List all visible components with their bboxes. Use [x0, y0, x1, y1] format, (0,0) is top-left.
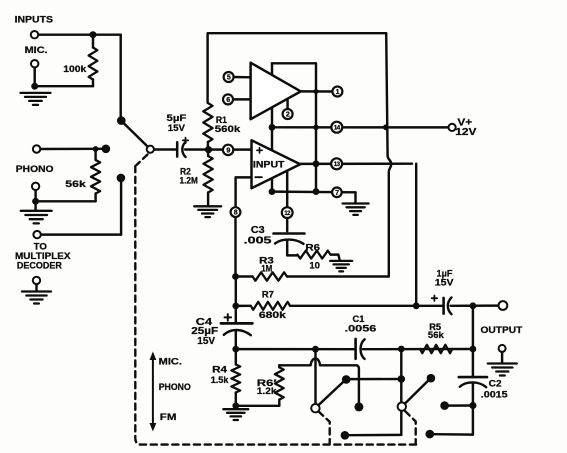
svg-text:15V: 15V	[168, 122, 186, 133]
svg-text:DECODER: DECODER	[17, 260, 62, 271]
svg-text:MIC.: MIC.	[25, 44, 48, 55]
svg-text:8: 8	[234, 209, 238, 217]
svg-text:PHONO: PHONO	[159, 382, 192, 393]
svg-text:100k: 100k	[63, 63, 87, 74]
svg-text:INPUTS: INPUTS	[15, 15, 53, 25]
svg-text:15V: 15V	[435, 276, 455, 287]
svg-text:OUTPUT: OUTPUT	[481, 325, 523, 336]
svg-text:FM: FM	[160, 412, 177, 423]
svg-text:INPUT: INPUT	[253, 160, 285, 170]
svg-text:2: 2	[286, 111, 290, 119]
svg-text:R6: R6	[305, 242, 320, 253]
svg-text:9: 9	[226, 146, 230, 154]
svg-text:1M: 1M	[261, 262, 272, 273]
svg-text:.0015: .0015	[481, 389, 509, 400]
svg-text:56k: 56k	[65, 178, 87, 189]
svg-text:1: 1	[336, 88, 340, 96]
svg-text:10: 10	[309, 260, 320, 271]
svg-text:7: 7	[335, 189, 339, 197]
svg-text:56k: 56k	[428, 330, 445, 341]
svg-text:MIC.: MIC.	[159, 357, 182, 368]
svg-text:.0056: .0056	[345, 323, 377, 334]
svg-text:PHONO: PHONO	[16, 164, 54, 175]
svg-text:6: 6	[226, 96, 230, 104]
svg-text:560k: 560k	[215, 123, 241, 134]
svg-text:15V: 15V	[197, 336, 215, 347]
svg-text:1.5k: 1.5k	[211, 375, 229, 386]
svg-text:1.2k: 1.2k	[257, 386, 277, 397]
svg-text:.005: .005	[244, 235, 273, 246]
svg-text:1.2M: 1.2M	[180, 175, 199, 186]
svg-text:680k: 680k	[259, 310, 287, 321]
svg-text:C2: C2	[489, 378, 502, 389]
svg-text:12V: 12V	[455, 127, 477, 138]
svg-text:R7: R7	[262, 288, 274, 299]
svg-text:5: 5	[227, 74, 231, 82]
svg-text:R4: R4	[212, 365, 228, 376]
